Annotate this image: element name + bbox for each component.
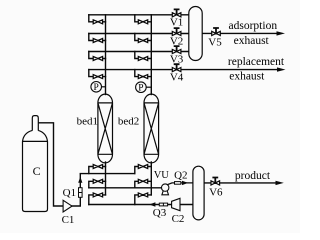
gas cylinder C: [23, 116, 48, 212]
valve V3: [172, 46, 181, 54]
valve bed2 bottom row1: [138, 165, 147, 169]
wire bed2 bottom column: [150, 162, 152, 195]
wire mid stub drop row 1: [135, 15, 152, 22]
wire bottom row 3 line: [89, 204, 193, 206]
valve bed2 top row2: [138, 39, 147, 43]
flow element Q2: [175, 182, 181, 185]
svg-text:Q2: Q2: [174, 169, 187, 181]
vacuum pump VU: [162, 184, 169, 195]
wire header row 1: [89, 14, 189, 16]
arrow Q2 to tank: [182, 181, 188, 185]
wire left stub drop row 1: [89, 15, 106, 22]
valve bed1 top row3: [93, 57, 102, 61]
wire bottom left stub row2: [89, 181, 106, 188]
compressor C1: [63, 200, 72, 212]
vessel bed2: [144, 94, 159, 163]
arrow bottom row3 left: [149, 202, 155, 206]
compressor C2: [172, 198, 180, 210]
arrow Q1 riser up: [78, 177, 82, 183]
valve bed2 top row1: [138, 20, 147, 24]
valve V1: [172, 9, 181, 17]
valve bed1 top row2: [93, 39, 102, 43]
wire product line: [204, 182, 277, 184]
svg-text:V6: V6: [209, 187, 223, 199]
wire left stub drop row 3: [89, 52, 106, 59]
valve bed1 bottom row2: [93, 179, 102, 183]
svg-text:Q3: Q3: [153, 207, 167, 219]
wire header row 4 / replacement exhaust line: [89, 69, 278, 71]
svg-text:C1: C1: [62, 214, 75, 226]
wire VU to Q2 line: [167, 183, 193, 185]
svg-text:bed1: bed1: [77, 116, 98, 128]
wire bed1 top column: [105, 15, 107, 95]
valve V4: [172, 64, 181, 72]
wire bed2 top column: [150, 15, 152, 95]
wire bottom mid stub row3: [135, 195, 152, 205]
wire mid stub drop row 2: [135, 34, 152, 41]
valve bed2 top row3: [138, 57, 147, 61]
valve V6: [211, 178, 220, 186]
wire header row 3: [89, 51, 189, 53]
pressure gauge P (bed2): [136, 82, 152, 93]
valve bed2 bottom row3: [138, 193, 147, 197]
valve bed1 top row1: [93, 20, 102, 24]
svg-text:exhaust: exhaust: [234, 35, 270, 47]
wire V5 adsorption line: [202, 32, 278, 34]
svg-text:C2: C2: [172, 213, 185, 225]
valve bed1 bottom row3: [93, 193, 102, 197]
wire C1 to Q1 riser: [71, 174, 80, 206]
svg-text:P: P: [94, 83, 99, 93]
valve bed1 bottom row1: [93, 165, 102, 169]
svg-text:Q1: Q1: [63, 187, 76, 199]
svg-text:exhaust: exhaust: [229, 70, 265, 82]
svg-text:V5: V5: [208, 36, 222, 48]
vessel bed1: [98, 94, 113, 163]
wire bed1 bottom column: [105, 162, 107, 195]
vessel product tank: [193, 166, 204, 220]
valve bed2 top row4: [138, 75, 147, 79]
valve V2: [172, 28, 181, 35]
flow element Q3: [159, 203, 167, 206]
vessel buffer tank: [189, 7, 202, 61]
wire mid stub drop row 3: [135, 52, 152, 59]
pressure gauge P (bed1): [91, 82, 106, 93]
valve bed1 top row4: [93, 75, 102, 79]
arrow product: [276, 181, 284, 185]
wire bottom left stub row1: [89, 167, 106, 174]
svg-text:C: C: [33, 164, 41, 178]
wire bottom mid stub row2: [135, 181, 152, 188]
wire bottom mid stub row1: [135, 167, 152, 174]
svg-text:adsorption: adsorption: [229, 20, 278, 32]
valve V5: [212, 28, 221, 36]
flow element Q1: [79, 188, 83, 198]
wire left stub drop row 4: [89, 70, 106, 77]
svg-text:V1: V1: [170, 17, 183, 29]
wire left stub drop row 2: [89, 34, 106, 41]
wire cylinder to C1: [38, 123, 63, 206]
wire mid stub drop row 4: [135, 70, 152, 77]
svg-text:VU: VU: [154, 170, 170, 181]
wire bottom row 1 line: [80, 173, 135, 175]
svg-text:bed2: bed2: [118, 116, 139, 128]
svg-text:product: product: [235, 170, 271, 182]
wire bottom left stub row3: [89, 195, 106, 205]
wire bottom row 2 line: [89, 187, 162, 189]
valve bed2 bottom row2: [138, 179, 147, 183]
arrow replacement exhaust: [277, 67, 286, 71]
svg-text:P: P: [138, 84, 143, 94]
wire header row 2: [89, 33, 189, 35]
arrow adsorption exhaust: [277, 31, 286, 35]
svg-text:V4: V4: [170, 72, 184, 84]
svg-text:replacement: replacement: [228, 56, 285, 68]
